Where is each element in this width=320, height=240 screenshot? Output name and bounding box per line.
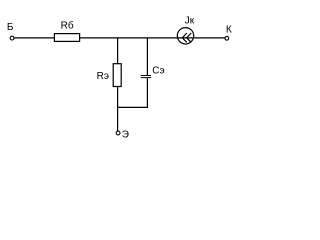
svg-text:Э: Э	[122, 129, 129, 140]
terminal Э	[116, 131, 120, 135]
terminal К	[225, 36, 229, 40]
current source Jк arrow chevron 2	[187, 33, 192, 42]
wire: top node down to resistor Rэ	[117, 38, 119, 64]
wire: bottom junction down to terminal Э	[117, 107, 119, 131]
svg-text:К: К	[226, 24, 232, 35]
wire: capacitor Сэ to bottom wire	[146, 78, 148, 107]
wire: Б terminal to resistor Rб	[14, 37, 54, 39]
wire: bottom joining Rэ and Сэ branches	[118, 106, 148, 108]
terminal Б	[10, 36, 14, 40]
current source Jк circle	[177, 28, 193, 44]
resistor Rэ	[113, 64, 121, 87]
wire: resistor Rб to current source (passes through nodes at x=117.6 and x=147.4)	[80, 37, 225, 39]
current source Jк arrow chevron 1	[182, 33, 187, 42]
capacitor Сэ top plate	[141, 75, 151, 77]
wire: resistor Rэ to bottom junction	[117, 87, 119, 108]
wire: top node down to capacitor Сэ	[146, 38, 148, 75]
svg-text:Сэ: Сэ	[152, 65, 164, 76]
svg-text:Jк: Jк	[185, 16, 195, 27]
capacitor Сэ bottom plate	[141, 77, 151, 79]
svg-text:Б: Б	[7, 22, 14, 33]
resistor Rб	[54, 34, 79, 42]
svg-text:Rб: Rб	[61, 19, 74, 31]
svg-text:Rэ: Rэ	[97, 71, 109, 82]
